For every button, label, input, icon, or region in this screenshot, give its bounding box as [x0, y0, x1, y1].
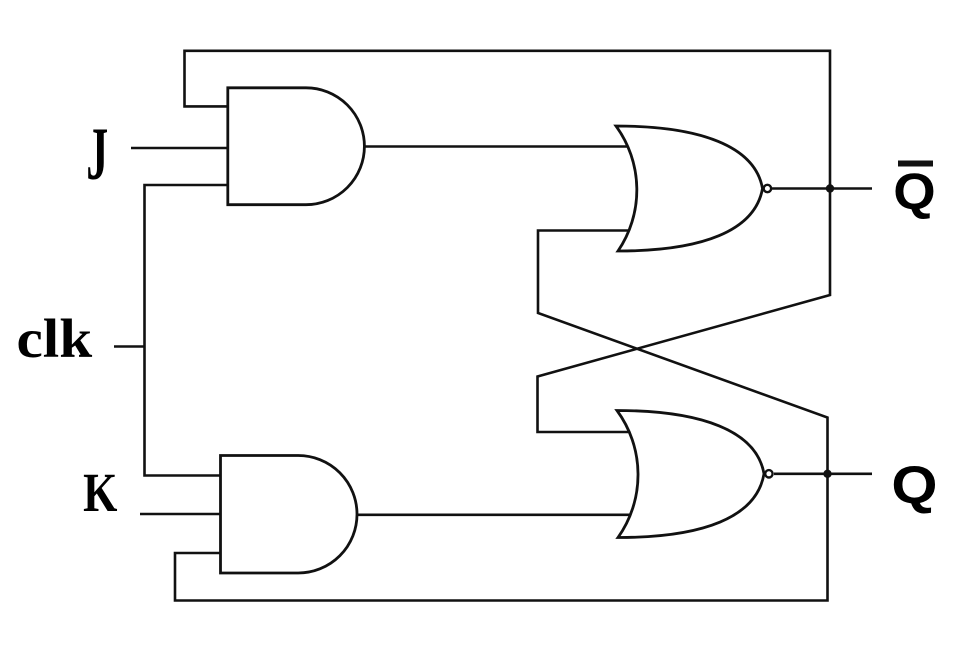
junction dot Qbar net — [826, 184, 834, 192]
label clk — [16, 309, 92, 370]
inverter bubble NOR2 — [765, 470, 772, 477]
inverter bubble NOR1 — [764, 185, 771, 192]
and-gate AND2 (K gate) — [221, 456, 358, 574]
wire AND2 output to NOR2 input — [357, 513, 632, 516]
label J — [86, 113, 108, 196]
svg-text:Q: Q — [893, 164, 935, 221]
label Q — [891, 455, 937, 514]
wire Qbar output — [772, 187, 872, 190]
nor-gate NOR1 (Qbar gate) body — [616, 126, 763, 251]
svg-text:Q: Q — [891, 455, 937, 514]
svg-text:K: K — [83, 461, 117, 523]
overline of Qbar — [898, 161, 933, 167]
wire NOR1 lower input zig to Q net diagonal — [175, 231, 828, 601]
wire clk input and branch — [114, 345, 145, 348]
label K — [83, 461, 117, 523]
svg-text:clk: clk — [16, 309, 92, 370]
label Qbar — [893, 164, 935, 221]
wire Q output — [774, 472, 872, 475]
wire AND1 output to NOR1 input — [364, 145, 632, 148]
wire top feedback from Qbar net to AND1 input 1 — [185, 51, 831, 432]
nor-gate NOR2 (Q gate) body — [617, 411, 764, 538]
svg-text:J: J — [86, 113, 108, 196]
wire K input — [140, 513, 228, 516]
wire J input — [131, 147, 232, 150]
and-gate AND1 (J gate) — [228, 88, 365, 205]
junction dot Q net — [823, 470, 831, 478]
